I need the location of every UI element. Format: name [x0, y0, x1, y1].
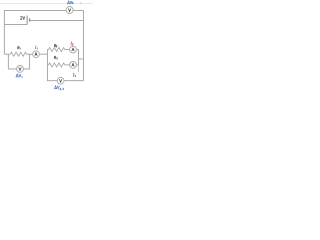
voltmeter Vb: [66, 7, 73, 14]
label dV1: [16, 74, 22, 78]
wire: [39, 53, 47, 55]
resistor R1: [10, 52, 26, 56]
label R2: [54, 44, 57, 47]
label dV23: [55, 86, 64, 90]
voltmeter V23: [57, 77, 64, 84]
wire: [78, 65, 80, 72]
wire: [30, 19, 84, 21]
ammeter A2: [70, 46, 77, 53]
wire: [4, 53, 10, 55]
wire: [7, 54, 9, 69]
label I1: [35, 46, 37, 50]
wire: [78, 50, 80, 65]
wire: [73, 9, 83, 11]
label R3: [54, 56, 57, 59]
wire: [79, 58, 84, 60]
wire: [65, 49, 70, 51]
battery 2V: [27, 16, 29, 25]
resistor R2: [49, 48, 65, 52]
wire: [64, 80, 83, 82]
wire: [4, 23, 27, 25]
wire: [8, 68, 17, 70]
wire: [4, 9, 66, 11]
wire: [47, 80, 57, 82]
label I2: [71, 42, 74, 45]
label R1: [18, 46, 21, 49]
wire: [27, 53, 33, 55]
wire: [29, 54, 31, 69]
label I3: [73, 73, 76, 76]
ammeter A1: [33, 51, 40, 58]
wire: [65, 64, 70, 66]
resistor R3: [49, 63, 65, 67]
wire: [76, 49, 79, 51]
wire: [47, 49, 49, 51]
wire: [23, 68, 30, 70]
wire: [82, 10, 84, 80]
label 2V: [21, 16, 25, 19]
wire: [76, 64, 79, 66]
wire: [47, 64, 49, 66]
label dVb: [68, 1, 74, 4]
ammeter A3: [70, 62, 77, 69]
voltmeter V1: [17, 66, 24, 73]
wire: [46, 50, 48, 81]
wire: [3, 10, 5, 54]
